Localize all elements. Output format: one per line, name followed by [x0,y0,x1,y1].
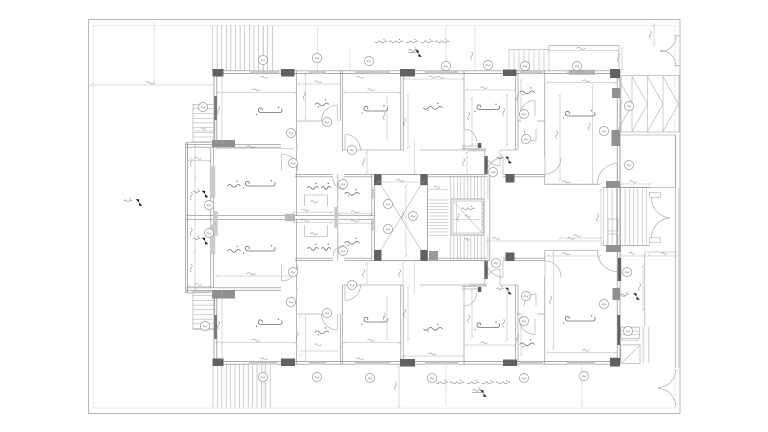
right top dimensions [653,25,655,45]
building right exterior wall [616,71,618,364]
window strip above bath1 [309,71,326,74]
left side stair upper [193,104,215,142]
mirrored room dimensions lower apartment [217,342,296,344]
right entrance landing [620,135,676,188]
label small bath lower [520,343,535,346]
label bedroom upper-2 [364,106,388,111]
label bedroom lower-2 [364,317,388,322]
label bedroom lower-left [259,320,283,325]
stair flight vertical below elevator [450,236,452,260]
door-window tags [258,55,267,64]
elevator dimensions [456,201,458,234]
label bath middle lower [345,241,360,244]
columns on right wall [612,88,620,98]
hall east jamb column upper [506,174,515,183]
window strip on axis wall [213,211,218,235]
elevator shaft [451,199,484,235]
columns on top exterior wall [213,69,224,77]
label small bath upper [520,91,535,94]
bottom-right mini stair [621,327,640,339]
columns on bottom exterior wall [213,359,224,367]
well marker bottom-right corridor [633,293,640,300]
well pinwheel top [415,50,422,57]
label kitchen lower [477,323,500,328]
court corner columns [374,174,381,185]
door arcs upper apartment [282,154,299,171]
bump top wall [186,141,211,143]
top stair beside living room [509,49,549,51]
left outside dimension chain [194,146,196,290]
label bath middle upper [345,192,360,195]
pedestrian gate top right in fence [660,36,676,52]
entrance stair hatch through right wall [603,187,650,189]
well marker in hall lower [505,288,512,295]
label bath lower [315,331,329,334]
bottom-right corridor [644,252,646,326]
right mid dimensions [592,86,594,183]
corner columns on left wall [212,140,235,147]
roof terrace outline top right [549,44,619,46]
hall dimensions [466,152,468,172]
building left exterior wall lower [213,290,215,364]
hall column lower [484,261,488,279]
interior walls of upper apartment [186,144,281,146]
stair core bottom wall [428,260,491,262]
building bottom exterior wall [213,360,620,362]
dark wall segment left upper [214,96,217,120]
top-left terrace hatch [212,26,214,71]
label reception upper [566,111,596,116]
master bedroom dimension [217,148,293,150]
core dimensions [430,189,447,191]
window strip dressing wall on axis [334,207,338,228]
plot boundary inner dashed setback line [94,25,676,27]
corridor dim line below court (mirror) [414,261,416,294]
hall column upper [484,156,488,174]
living dimensions [404,78,463,80]
label master bedroom lower [246,246,276,251]
stair core right wall [489,174,491,260]
hatched block at bottom wall right end [610,358,618,365]
plot boundary outer fence [89,20,681,414]
central open court with X cross [374,174,427,260]
window strips on bottom wall [249,361,277,364]
corridor dimensions [366,152,368,172]
stair flight vertical above elevator [450,175,452,198]
label dressing room lower [307,247,318,250]
well markers on left wall [202,191,209,198]
label kitchen upper [477,105,500,110]
bath1 dimensions [299,83,339,85]
door arcs lower apartment [282,265,299,282]
hall door arc lower [487,261,504,278]
corridor dim line above court [414,141,416,174]
label bath upper [315,103,329,106]
entrance court east wall [675,135,677,368]
label living upper [423,106,442,109]
bedroom2 dimensions [344,92,400,94]
closet niche lower dressing [304,226,327,237]
kitchen dimensions [466,89,515,91]
column on axis wall right end [285,214,295,222]
label master bedroom upper [246,181,276,186]
bottom-right corridor inner rails [642,327,644,364]
elevator label [461,208,474,210]
bottom-left terrace hatch [212,365,214,408]
pedestrian gate bottom right in fence [658,369,676,388]
bottom right dimensions [620,255,645,257]
bottom-right ramp box with diagonal [621,345,640,364]
hall east jamb column lower [506,253,515,262]
window bar in kitchen wall [469,148,487,151]
reception dimensions [547,82,616,84]
building left exterior wall master-bedroom bump [185,143,187,293]
note roofed-at-zero-level bottom [496,382,510,384]
court dimensions [378,181,424,183]
left side stair lower [193,291,215,329]
well marker in left yard [136,199,143,206]
stair treads horizontal between court and elevator [428,199,448,201]
window width labels on bottom wall [261,358,268,360]
yard dimension verticals [153,22,155,85]
well marker in hall upper [505,157,512,164]
right wall dark segment lower [618,315,621,345]
window segments on court left wall [372,189,375,199]
small bath dimension [520,80,522,118]
interior walls of lower apartment (mirror) [186,289,281,291]
label living lower [423,327,442,330]
window width labels on top wall [261,76,268,78]
right entrance chevron stair [621,76,679,133]
building top exterior wall [213,70,620,72]
elevator door zigzag strip [483,201,485,233]
note roofed-at-zero-level top [435,41,449,43]
yard width dimension [91,84,212,86]
bedroom2 vertical dimension [386,95,388,140]
bedroom1 dimensions [217,92,296,94]
entrance jamb boxes on right wall [608,219,618,231]
bottom center dimensions [398,366,400,407]
label reception lower [566,316,596,321]
core landing column [429,251,438,260]
dressing dimensions [293,211,332,213]
window strips on master bedroom window wall [211,166,215,198]
gray lintel on top wall right [569,70,595,75]
master bedroom window wall inner line [210,147,212,288]
lower hall dimension string [486,240,600,242]
bump bottom wall [186,292,211,294]
right wall dark jamb segment [618,258,621,281]
closet niche upper dressing [304,195,327,206]
hall door arc upper [487,158,504,175]
bedroom2 lower vertical dimension [386,295,388,340]
entrance landing dimension [622,183,650,185]
label dressing room upper [307,186,318,189]
label bedroom upper-left [259,108,283,113]
building left exterior wall upper [213,71,215,146]
bump depth dimensions [189,160,211,162]
window strip on top wall [250,71,279,74]
main entrance double door leaves [650,192,661,197]
well pinwheel bottom [480,390,487,397]
party wall between the two master bedrooms on axis [186,215,374,217]
